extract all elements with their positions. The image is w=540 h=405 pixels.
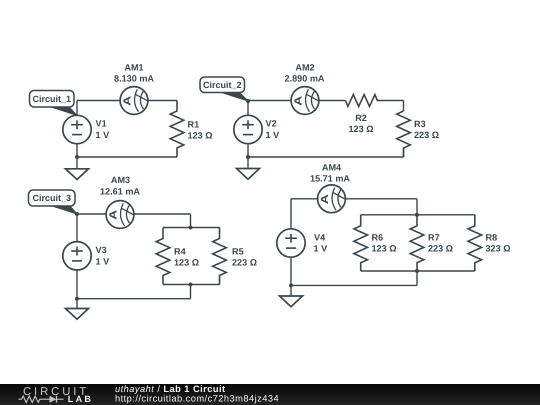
- svg-text:V2: V2: [266, 119, 277, 129]
- value R8 323 ohm: [486, 244, 511, 254]
- resistor R2: [346, 95, 404, 107]
- node junction circuit4 bottom: [289, 283, 293, 287]
- svg-text:A: A: [320, 193, 331, 204]
- value V2 1 V: [266, 130, 280, 140]
- value R4 123 ohm: [174, 258, 199, 268]
- wire rail top circuit4: [361, 214, 475, 216]
- resistor R4: [156, 228, 170, 285]
- logo resistor zigzag: [19, 396, 50, 402]
- svg-text:Circuit_3: Circuit_3: [32, 193, 71, 203]
- svg-text:V4: V4: [314, 232, 326, 242]
- svg-text:AM2: AM2: [295, 63, 314, 73]
- voltage source V2: [234, 115, 262, 143]
- wire V2 top stub: [247, 101, 249, 116]
- wire V1 bottom stub: [76, 144, 78, 157]
- wire top circuit2: [248, 100, 291, 102]
- logo LAB text: [68, 394, 93, 404]
- svg-text:223 Ω: 223 Ω: [232, 258, 257, 268]
- wire top circuit1 right: [148, 100, 177, 102]
- value V1 1 V: [96, 130, 110, 140]
- value R6 123 ohm: [372, 244, 397, 254]
- value AM1 8.130 mA: [114, 74, 154, 84]
- wire ground stub circuit2: [247, 157, 249, 169]
- node junction rail bottom circuit4: [415, 269, 419, 273]
- svg-text:1 V: 1 V: [314, 244, 328, 254]
- label flag Circuit_1: [30, 91, 78, 116]
- svg-text:LAB: LAB: [68, 394, 93, 404]
- resistor R5: [213, 228, 227, 285]
- value V4 1 V: [314, 244, 328, 254]
- svg-text:http://circuitlab.com/c72h3m84: http://circuitlab.com/c72h3m84jz434: [115, 394, 279, 404]
- wire top circuit1: [77, 100, 120, 102]
- svg-text:223 Ω: 223 Ω: [414, 130, 439, 140]
- wire V4 bottom stub: [290, 257, 292, 285]
- credit line author/title: [115, 384, 226, 394]
- wire rail stub down circuit4: [416, 271, 418, 285]
- logo CIRCUIT text: [23, 386, 89, 398]
- node junction circuit1 bottom: [75, 155, 79, 159]
- wire rail stub down circuit3: [190, 285, 192, 299]
- value AM2 2.890 mA: [285, 74, 325, 84]
- wire bottom circuit2: [248, 156, 404, 158]
- voltage source V1: [63, 115, 91, 143]
- svg-text:Circuit_2: Circuit_2: [203, 80, 242, 90]
- label R3: [414, 119, 426, 129]
- svg-text:AM3: AM3: [111, 175, 130, 185]
- svg-text:A: A: [108, 209, 119, 220]
- svg-text:R7: R7: [428, 233, 440, 243]
- credit line url: [115, 394, 279, 404]
- svg-text:8.130 mA: 8.130 mA: [114, 74, 154, 84]
- label R4: [174, 247, 187, 257]
- value R5 223 ohm: [232, 258, 257, 268]
- svg-text:1 V: 1 V: [266, 130, 280, 140]
- svg-text:AM4: AM4: [322, 163, 342, 173]
- svg-text:R1: R1: [188, 119, 200, 129]
- svg-text:223 Ω: 223 Ω: [428, 244, 453, 254]
- wire top circuit4: [291, 198, 318, 200]
- resistor R1: [170, 101, 184, 158]
- wire corner down circuit3: [190, 214, 192, 228]
- label R1: [188, 119, 200, 129]
- wire V1 top stub: [76, 101, 78, 116]
- ammeter AM4: [318, 185, 346, 213]
- ammeter AM3: [106, 201, 134, 229]
- wire V3 top stub: [76, 214, 78, 242]
- svg-text:12.61 mA: 12.61 mA: [100, 187, 140, 197]
- resistor R3: [397, 111, 411, 157]
- label flag Circuit_3: [29, 190, 78, 214]
- node junction rail top circuit3: [189, 226, 193, 230]
- svg-text:1 V: 1 V: [96, 256, 110, 266]
- svg-text:R5: R5: [232, 247, 244, 257]
- svg-text:V1: V1: [96, 119, 107, 129]
- ammeter AM2: [291, 87, 319, 115]
- wire V2 bottom stub: [247, 144, 249, 157]
- svg-text:Circuit_1: Circuit_1: [32, 94, 71, 104]
- svg-text:1 V: 1 V: [96, 130, 110, 140]
- svg-text:123 Ω: 123 Ω: [349, 124, 374, 134]
- wire R3 bottom stub: [403, 148, 405, 157]
- wire rail bottom circuit3: [163, 284, 220, 286]
- svg-text:123 Ω: 123 Ω: [372, 244, 397, 254]
- wire V3 bottom stub: [76, 270, 78, 299]
- svg-text:V3: V3: [96, 245, 107, 255]
- svg-text:R6: R6: [372, 233, 384, 243]
- wire AM4 to corner: [345, 198, 417, 200]
- wire ground stub circuit3: [76, 299, 78, 309]
- wire bottom circuit3: [77, 298, 191, 300]
- wire ground stub circuit4: [290, 285, 292, 296]
- wire ground stub circuit1: [76, 157, 78, 169]
- wire R2 to R3 corner: [403, 101, 405, 112]
- wire V4 top stub: [290, 199, 292, 229]
- resistor R7: [410, 215, 424, 271]
- value R2 123 ohm: [349, 124, 374, 134]
- svg-text:A: A: [293, 95, 304, 106]
- ground circuit1: [66, 169, 89, 180]
- node junction circuit2 bottom: [246, 155, 250, 159]
- svg-text:123 Ω: 123 Ω: [174, 258, 199, 268]
- wire AM3 to corner: [134, 213, 191, 215]
- value V3 1 V: [96, 256, 110, 266]
- wire rail bottom circuit4: [361, 270, 475, 272]
- logo diode symbol: [50, 396, 64, 403]
- wire bottom circuit4: [291, 284, 417, 286]
- resistor R8: [468, 215, 482, 271]
- wire rail top circuit3: [163, 227, 220, 229]
- footer bar background: [0, 384, 540, 405]
- label AM4: [322, 163, 342, 173]
- ground circuit3: [66, 309, 89, 320]
- label R8: [486, 233, 498, 243]
- node junction rail top circuit4: [415, 213, 419, 217]
- label R7: [428, 233, 440, 243]
- label R5: [232, 247, 244, 257]
- svg-text:123 Ω: 123 Ω: [188, 131, 213, 141]
- ground circuit4: [280, 296, 303, 307]
- voltage source V3: [63, 242, 91, 270]
- svg-text:A: A: [122, 95, 133, 106]
- wire bottom circuit1: [77, 156, 177, 158]
- label V4: [314, 232, 326, 242]
- svg-text:R4: R4: [174, 247, 187, 257]
- label AM3: [111, 175, 130, 185]
- node junction rail bottom circuit3: [189, 283, 193, 287]
- wire AM2 to R2: [319, 100, 346, 102]
- svg-text:R2: R2: [355, 113, 367, 123]
- value AM3 12.61 mA: [100, 187, 140, 197]
- node junction circuit3 bottom: [75, 297, 79, 301]
- label V2: [266, 119, 277, 129]
- ground circuit2: [237, 169, 260, 180]
- svg-text:R8: R8: [486, 233, 498, 243]
- wire corner down circuit4: [416, 199, 418, 215]
- ammeter AM1: [120, 87, 148, 115]
- node junction circuit3 top: [75, 212, 79, 216]
- label R2: [355, 113, 367, 123]
- svg-text:R3: R3: [414, 119, 426, 129]
- label R6: [372, 233, 384, 243]
- wire top circuit3: [77, 213, 106, 215]
- svg-text:AM1: AM1: [124, 63, 143, 73]
- label V3: [96, 245, 107, 255]
- resistor R6: [354, 215, 368, 271]
- label AM2: [295, 63, 314, 73]
- label flag Circuit_2: [200, 77, 248, 101]
- label V1: [96, 119, 107, 129]
- voltage source V4: [277, 229, 305, 257]
- svg-text:2.890 mA: 2.890 mA: [285, 74, 325, 84]
- value AM4 15.71 mA: [310, 174, 350, 184]
- svg-text:15.71 mA: 15.71 mA: [310, 174, 350, 184]
- svg-text:323 Ω: 323 Ω: [486, 244, 511, 254]
- label AM1: [124, 63, 143, 73]
- value R3 223 ohm: [414, 130, 439, 140]
- value R1 123 ohm: [188, 131, 213, 141]
- node junction circuit2 top: [246, 99, 250, 103]
- value R7 223 ohm: [428, 244, 453, 254]
